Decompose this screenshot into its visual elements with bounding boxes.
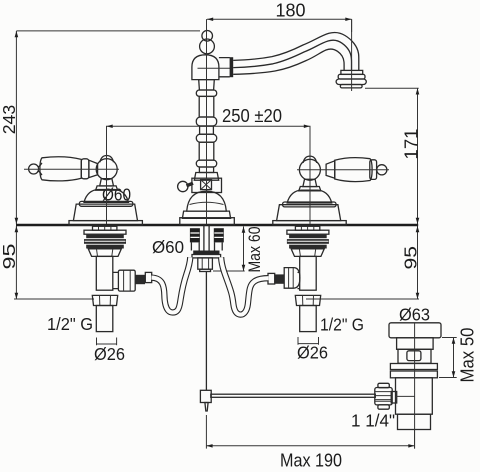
pop-up rod <box>205 272 207 391</box>
svg-text:250 ±20: 250 ±20 <box>222 105 282 126</box>
left base block <box>73 204 137 221</box>
right base plate <box>273 221 346 226</box>
dimension Max 50 line <box>439 338 457 378</box>
svg-text:Max 190: Max 190 <box>280 451 342 471</box>
left valve shank tube <box>96 256 113 290</box>
right elbow connector lines <box>298 272 300 288</box>
right handle stem flare <box>299 187 321 191</box>
left hose ferrule <box>145 272 151 282</box>
column segment neck <box>199 80 215 90</box>
manifold nut <box>198 258 213 272</box>
spout bottom outline <box>233 49 344 74</box>
svg-text:Max 60: Max 60 <box>246 227 264 273</box>
dimension 95 right line <box>306 226 419 299</box>
right valve shank tube <box>300 256 317 290</box>
spout outlet ring 2 <box>338 74 365 79</box>
drain body window <box>407 351 421 361</box>
linkage knurled clamp <box>375 383 392 409</box>
right supply tube <box>300 306 317 332</box>
dimension 171 line <box>365 88 419 224</box>
right valve washer 4 <box>289 245 327 249</box>
center escutcheon dome arc <box>190 202 224 204</box>
column segment 3 <box>200 126 214 134</box>
valve cross box <box>201 180 212 190</box>
svg-text:171: 171 <box>400 129 421 160</box>
right elbow threaded nipple <box>275 274 285 283</box>
svg-text:Ø63: Ø63 <box>399 305 430 325</box>
column segment 5 <box>199 167 213 173</box>
center check valve right <box>214 228 224 242</box>
left lever axis line <box>24 168 119 170</box>
drain seal ring 1 <box>390 364 437 370</box>
drain body mid line <box>397 395 415 397</box>
drain centerline <box>414 323 416 449</box>
svg-text:1/2" G: 1/2" G <box>47 314 93 334</box>
svg-text:95: 95 <box>0 244 19 270</box>
horizontal linkage rod <box>211 394 375 397</box>
spout outlet centerline <box>351 19 353 91</box>
dimension Max 190 line <box>206 415 414 449</box>
right lower nut <box>295 295 320 305</box>
left escutcheon dome <box>84 190 129 203</box>
right handle centerline <box>309 126 311 224</box>
column tee body <box>192 55 219 80</box>
valve collar <box>194 173 218 181</box>
column torus 2 <box>196 117 216 126</box>
svg-text:Max 50: Max 50 <box>458 328 478 383</box>
dimension 250 +-20 line <box>107 125 311 157</box>
left valve lock nut <box>88 249 121 257</box>
spout axis line <box>198 67 233 69</box>
right handle stem <box>303 179 317 186</box>
left elbow nut <box>118 270 135 291</box>
drain lower body <box>396 378 433 414</box>
dimension diameter 26 right <box>298 337 319 345</box>
left handle ball <box>96 159 117 180</box>
spout middle outline <box>233 40 351 70</box>
right handle ball cap <box>303 156 317 163</box>
center escutcheon flange <box>182 211 230 218</box>
right valve washer 3 <box>287 239 329 244</box>
left lower nut facets <box>100 296 111 306</box>
left elbow connector lines <box>113 272 119 288</box>
spout outlet bulge <box>336 79 366 85</box>
right escutcheon skirt <box>283 202 336 207</box>
column big ball <box>200 39 215 54</box>
right flexible hose <box>221 257 268 314</box>
left handle stem <box>100 179 114 186</box>
right handle ball <box>299 159 320 180</box>
column torus 3 <box>196 134 216 142</box>
column segment 4 <box>199 142 214 160</box>
svg-text:1 1/4": 1 1/4" <box>351 411 395 431</box>
svg-text:95: 95 <box>400 246 420 270</box>
manifold dark bar <box>193 251 219 255</box>
pull rod knob <box>178 181 193 191</box>
right valve shank neck below deck <box>295 226 319 230</box>
left valve washer 1 <box>84 230 126 234</box>
pop-up rod clamp <box>200 390 211 411</box>
left base plate <box>69 221 142 226</box>
center base plate <box>180 218 235 225</box>
left handle ring <box>81 159 89 179</box>
left valve shank neck below deck <box>93 226 117 230</box>
left handle collar <box>89 160 98 177</box>
svg-text:180: 180 <box>276 1 306 21</box>
drain seal ring 2 <box>390 371 437 378</box>
left supply tube <box>96 306 113 332</box>
linkage clamp stub <box>391 392 397 404</box>
center check valve left <box>190 228 200 242</box>
left handle tip ball <box>29 164 39 174</box>
right escutcheon dome <box>287 190 332 203</box>
left handle centerline <box>106 126 108 224</box>
drain flange <box>389 323 441 338</box>
column top small ball <box>202 31 213 42</box>
left escutcheon skirt <box>79 201 132 206</box>
drain neck <box>397 338 434 350</box>
left valve washer 2 <box>86 235 124 239</box>
spout neck cylinder <box>219 58 230 77</box>
pop-up rod guide tube <box>204 225 209 251</box>
dimension diameter 26 left <box>97 338 117 346</box>
left lower nut <box>92 295 117 305</box>
drain tailpipe <box>398 414 431 429</box>
left valve washer 3 <box>84 239 126 244</box>
right base block <box>277 205 341 221</box>
right hose ferrule <box>268 273 275 284</box>
right lever axis line <box>297 169 389 171</box>
svg-text:Ø26: Ø26 <box>297 343 328 363</box>
left handle grip <box>40 157 81 181</box>
column torus 4 <box>196 160 216 167</box>
right valve washer 2 <box>289 235 327 239</box>
column torus 1 <box>196 90 216 96</box>
left handle ball cap <box>100 156 114 163</box>
left elbow threaded nipple <box>135 275 145 284</box>
left valve washer 4 <box>86 245 124 249</box>
svg-text:Ø26: Ø26 <box>94 344 125 364</box>
drain body <box>398 349 431 363</box>
spout top outline <box>233 33 359 71</box>
deck mounting line <box>16 224 418 227</box>
valve block <box>192 178 222 192</box>
left handle tip neck <box>38 163 42 175</box>
dimension 95 left line <box>14 226 94 299</box>
dimension 243 line <box>15 31 200 224</box>
dimension 180 line <box>207 18 352 33</box>
column centerline <box>206 19 208 224</box>
right valve lock nut <box>291 249 324 257</box>
svg-text:243: 243 <box>0 105 19 135</box>
center escutcheon dome <box>187 191 227 211</box>
spout outlet ring 1 <box>341 70 363 74</box>
svg-text:Ø60: Ø60 <box>152 237 184 257</box>
svg-text:1/2" G: 1/2" G <box>320 315 364 335</box>
dimension Max 60 line <box>213 227 245 272</box>
left handle stem flare <box>96 186 118 190</box>
right handle collar <box>326 161 335 178</box>
column segment 2 <box>199 96 214 117</box>
right handle grip <box>335 158 372 182</box>
center supply tubes to manifold <box>191 242 222 250</box>
spout outlet bottom cap <box>340 85 362 88</box>
right lower nut facets <box>303 296 314 306</box>
right handle tip ball <box>377 165 387 175</box>
right valve washer 1 <box>287 230 329 234</box>
manifold plate <box>192 255 221 258</box>
right handle ring <box>370 160 377 180</box>
left flexible hose <box>152 257 191 312</box>
spout collar ring <box>230 57 234 77</box>
right elbow nut <box>284 268 300 289</box>
